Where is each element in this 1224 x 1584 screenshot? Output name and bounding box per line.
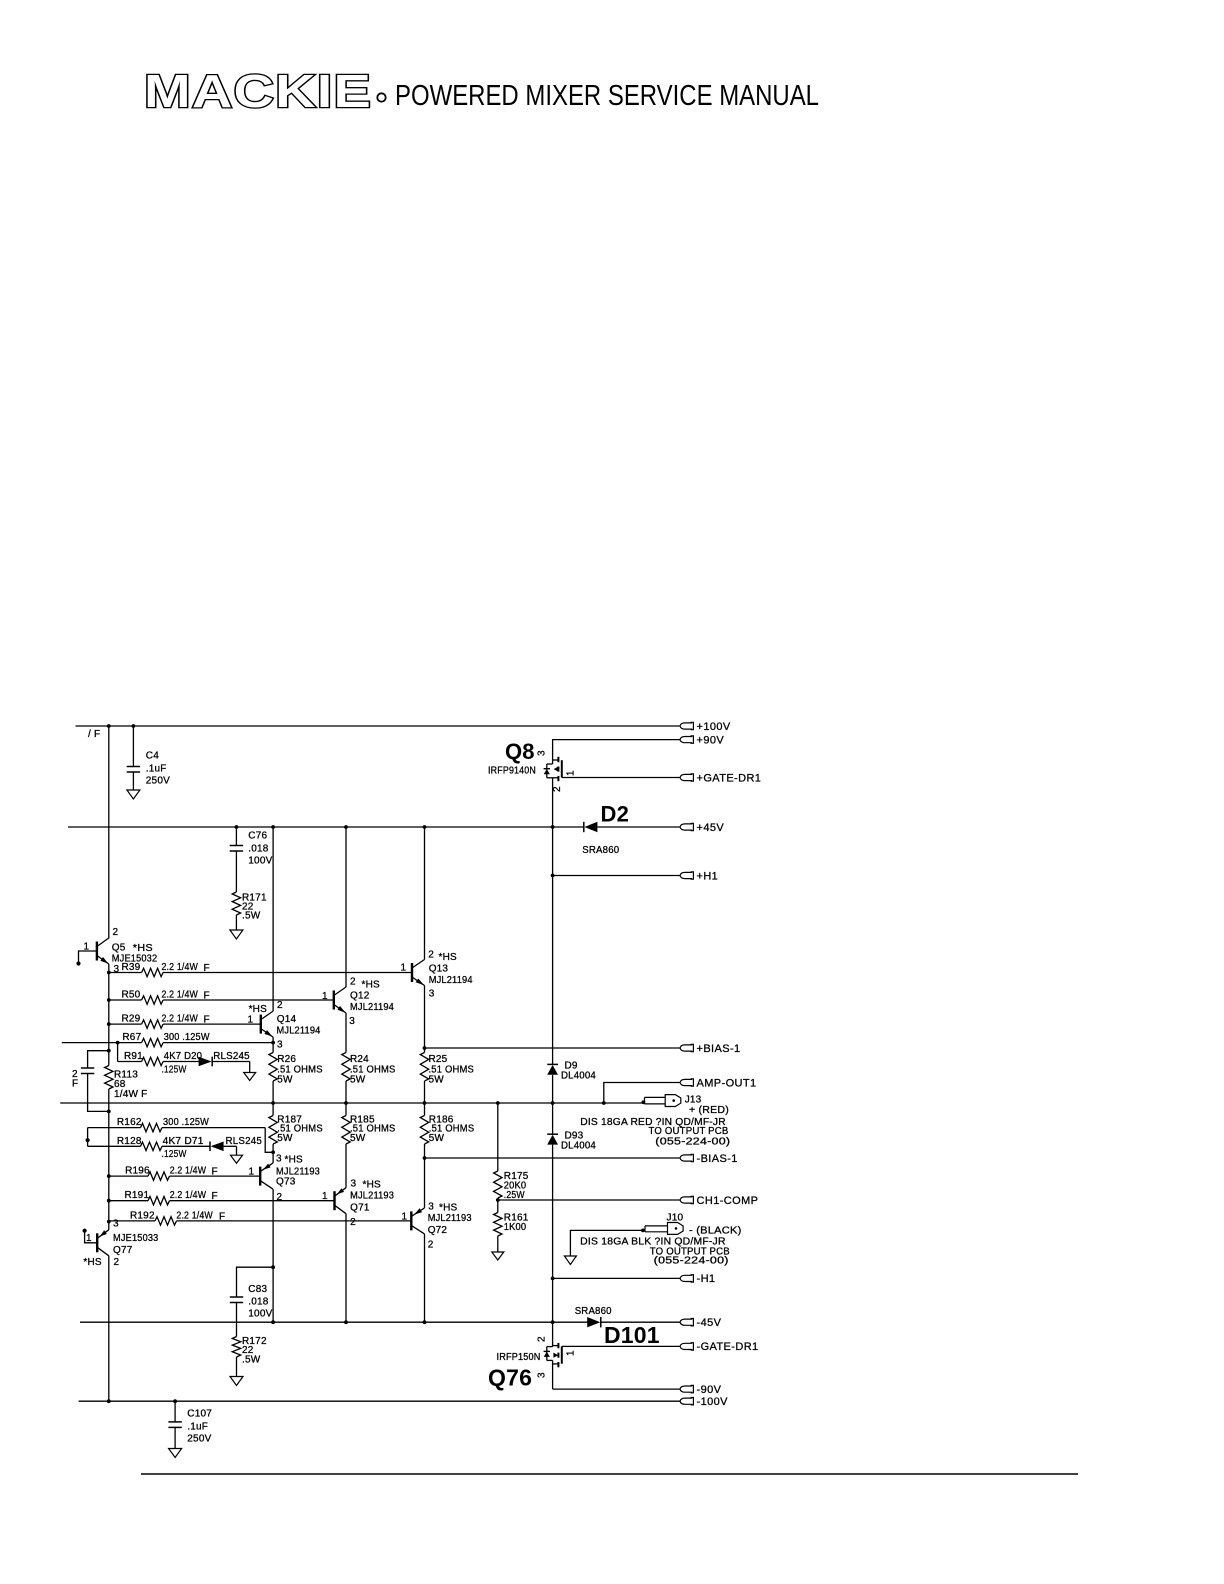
- junction -45V output column: [551, 1320, 555, 1324]
- svg-text:+100V: +100V: [697, 721, 731, 733]
- svg-text:D2: D2: [601, 802, 630, 827]
- junction +100V to C4: [132, 724, 136, 728]
- junction -45V Q73 column: [271, 1320, 275, 1324]
- svg-text:Q73: Q73: [276, 1177, 296, 1188]
- svg-text:2: 2: [277, 1000, 283, 1011]
- transistor Q77 MJE15033: [96, 1233, 98, 1252]
- svg-text:2.2 1/4W: 2.2 1/4W: [162, 990, 199, 1001]
- svg-text:3: 3: [429, 989, 435, 1000]
- resistor R175: [494, 1171, 502, 1198]
- junction R67 and R91 branch: [116, 1041, 120, 1045]
- svg-text:5W: 5W: [277, 1133, 293, 1144]
- svg-text:R162: R162: [117, 1117, 142, 1128]
- svg-text:RLS245: RLS245: [213, 1051, 250, 1062]
- diode D71: [209, 1142, 211, 1152]
- wire +GATE-DR1: [562, 777, 680, 779]
- resistor R29: [109, 1020, 261, 1028]
- transistor Q76 IRFP150N N-channel MOSFET: [544, 1343, 562, 1389]
- wire mid rail AMP-OUT1: [60, 1102, 644, 1104]
- wire +BIAS-1: [425, 1047, 681, 1049]
- svg-text:R191: R191: [125, 1190, 150, 1201]
- wire Q14 emitter to R26 node: [272, 1037, 274, 1043]
- svg-text:*HS: *HS: [133, 943, 153, 954]
- svg-text:RLS245: RLS245: [226, 1136, 263, 1147]
- svg-text:R67: R67: [122, 1032, 141, 1043]
- wire output column +45V to +H1: [552, 827, 554, 876]
- svg-text:300 .125W: 300 .125W: [164, 1032, 210, 1043]
- connector tag -GATE-DR1: [680, 1343, 692, 1349]
- svg-text:100V: 100V: [248, 1309, 272, 1320]
- svg-text:Q76: Q76: [488, 1365, 532, 1391]
- wire +H1: [553, 875, 680, 877]
- svg-text:2: 2: [114, 1257, 120, 1268]
- svg-text:- (BLACK): - (BLACK): [689, 1226, 742, 1237]
- svg-text:Q12: Q12: [350, 991, 370, 1002]
- svg-text:-100V: -100V: [697, 1396, 729, 1408]
- wire Q77 base stub: [85, 1231, 98, 1243]
- svg-text:2: 2: [428, 950, 434, 961]
- junction bus cap jog top: [107, 1049, 111, 1053]
- junction mid rail R25: [423, 1101, 427, 1105]
- svg-text:F: F: [219, 1211, 225, 1222]
- wire output column +H1 to D9: [552, 876, 554, 1065]
- junction output column -H1: [551, 1277, 555, 1281]
- svg-text:2: 2: [537, 1336, 548, 1342]
- wire -45V rail: [80, 1321, 590, 1323]
- junction mid rail R175: [496, 1101, 500, 1105]
- connector tag AMP-OUT1: [680, 1079, 692, 1085]
- svg-text:.018: .018: [248, 844, 269, 855]
- svg-text:2: 2: [277, 1192, 283, 1203]
- svg-text:Q14: Q14: [277, 1014, 297, 1025]
- wire Q73 collector to R187: [272, 1152, 274, 1163]
- resistor R50: [109, 996, 334, 1004]
- svg-text:100V: 100V: [248, 856, 272, 867]
- connector tag +GATE-DR1: [680, 774, 692, 780]
- junction -100V left bus: [107, 1399, 111, 1403]
- svg-text:2.2 1/4W: 2.2 1/4W: [162, 962, 199, 973]
- svg-text:2: 2: [113, 927, 119, 938]
- junction bus R39: [107, 971, 111, 975]
- ground below C107: [169, 1449, 182, 1458]
- svg-text:3: 3: [113, 1219, 119, 1230]
- resistor R26: [272, 1043, 274, 1053]
- resistor R185: [345, 1103, 347, 1116]
- svg-text:2.2 1/4W: 2.2 1/4W: [176, 1210, 213, 1221]
- svg-text:1: 1: [84, 942, 90, 953]
- svg-text:4K7 D20: 4K7 D20: [164, 1051, 203, 1062]
- svg-text:5W: 5W: [277, 1075, 293, 1086]
- transistor Q12 MJL21194: [333, 991, 335, 1010]
- connector tag -H1: [680, 1275, 692, 1281]
- svg-text:R192: R192: [130, 1210, 155, 1221]
- svg-text:5W: 5W: [429, 1075, 445, 1086]
- resistor R67: [62, 1038, 273, 1046]
- node stub on R128 link: [86, 1138, 90, 1142]
- svg-text:+H1: +H1: [697, 870, 719, 882]
- junction bus cap jog bottom: [107, 1110, 111, 1114]
- junction Q14 emitter R67 R26: [271, 1041, 275, 1045]
- wire Q5 base stub: [79, 951, 97, 964]
- svg-text:2: 2: [428, 1240, 434, 1251]
- wire Q13 emitter to +BIAS-1: [424, 986, 426, 1053]
- resistor R186: [424, 1103, 426, 1116]
- svg-text:-90V: -90V: [697, 1384, 722, 1396]
- svg-text:3: 3: [114, 964, 120, 975]
- transistor Q72 MJL21193: [410, 1211, 412, 1230]
- connector tag CH1-COMP: [680, 1197, 692, 1203]
- svg-text:(055-224-00): (055-224-00): [654, 1256, 729, 1267]
- svg-text:R25: R25: [429, 1054, 448, 1065]
- svg-text:J10: J10: [667, 1212, 684, 1223]
- node Q77 base stub: [83, 1229, 87, 1233]
- svg-text:+90V: +90V: [697, 734, 725, 746]
- svg-text:2: 2: [350, 1217, 356, 1228]
- wire R162-R128 left link: [87, 1128, 89, 1147]
- svg-text:MJL21193: MJL21193: [428, 1213, 472, 1224]
- svg-text:/ F: / F: [88, 729, 100, 740]
- resistor R161: [497, 1200, 499, 1213]
- svg-text:+45V: +45V: [697, 822, 725, 834]
- junction +45V rail and Q14 collector column: [271, 825, 275, 829]
- svg-text:Q5: Q5: [112, 943, 126, 954]
- wire -H1: [553, 1277, 680, 1279]
- svg-text:2.2 1/4W: 2.2 1/4W: [170, 1190, 207, 1201]
- svg-text:R50: R50: [122, 990, 141, 1001]
- svg-text:F: F: [204, 1015, 210, 1026]
- svg-text:*HS: *HS: [285, 1155, 304, 1166]
- resistor R128 with diode D71 RLS245: [88, 1142, 210, 1150]
- svg-text:5W: 5W: [350, 1133, 366, 1144]
- junction -100V C107: [173, 1399, 177, 1403]
- resistor R162: [88, 1123, 274, 1152]
- svg-text:J13: J13: [685, 1095, 702, 1106]
- wire Q5 emitter to bus: [108, 964, 110, 973]
- transistor Q8 IRFP9140N P-channel MOSFET: [544, 757, 562, 781]
- capacitor C76: [235, 827, 237, 846]
- junction mid rail AMP-OUT1 branch: [602, 1101, 606, 1105]
- svg-text:.5W: .5W: [242, 911, 261, 922]
- transistor Q14 MJL21194: [260, 1015, 262, 1034]
- svg-text:250V: 250V: [146, 776, 170, 787]
- svg-text:C76: C76: [248, 831, 267, 842]
- svg-text:IRFP9140N: IRFP9140N: [488, 766, 536, 777]
- svg-text:.125W: .125W: [162, 1065, 187, 1076]
- svg-text:2: 2: [552, 786, 563, 792]
- svg-text:F: F: [204, 963, 210, 974]
- wire output column -H1 to -45V: [552, 1278, 554, 1322]
- svg-text:*HS: *HS: [363, 1180, 382, 1191]
- wire -BIAS-1: [425, 1157, 681, 1159]
- wire Q77 collector to -100V: [108, 1256, 110, 1401]
- transistor Q71 MJL21193: [333, 1191, 335, 1210]
- wire Q72 emitter column down: [424, 1234, 426, 1322]
- wire Q12 collector column: [345, 827, 347, 987]
- svg-text:F: F: [72, 1079, 78, 1090]
- svg-text:F: F: [212, 1191, 218, 1202]
- resistor R113: [105, 1066, 113, 1090]
- svg-text:*HS: *HS: [249, 1004, 268, 1015]
- svg-text:1: 1: [566, 1350, 577, 1356]
- svg-text:1: 1: [86, 1233, 92, 1244]
- resistor R171: [232, 892, 240, 915]
- svg-text:SRA860: SRA860: [575, 1306, 612, 1317]
- junction bus R50: [107, 998, 111, 1002]
- wire -90V: [553, 1388, 680, 1390]
- resistor R196: [109, 1172, 260, 1180]
- svg-text:300 .125W: 300 .125W: [163, 1117, 209, 1128]
- svg-text:3: 3: [277, 1040, 283, 1051]
- junction +45V rail and C76: [235, 825, 239, 829]
- svg-text:R91: R91: [124, 1051, 143, 1062]
- transistor Q5 MJE15032: [96, 942, 98, 961]
- svg-text:1: 1: [248, 1015, 254, 1026]
- svg-text:.125W: .125W: [162, 1149, 187, 1160]
- svg-text:.1uF: .1uF: [146, 764, 167, 775]
- ground below C4: [127, 790, 140, 799]
- svg-text:POWERED MIXER SERVICE MANUAL: POWERED MIXER SERVICE MANUAL: [395, 80, 819, 112]
- svg-text:R29: R29: [122, 1014, 141, 1025]
- svg-text:C83: C83: [248, 1284, 267, 1295]
- diode D20: [211, 1057, 213, 1067]
- junction +45V rail and Q12 collector column: [344, 825, 348, 829]
- svg-text:(055-224-00): (055-224-00): [655, 1136, 730, 1147]
- connector tag -100V: [680, 1398, 692, 1404]
- ground below R161: [492, 1252, 504, 1260]
- svg-text:+GATE-DR1: +GATE-DR1: [697, 772, 762, 784]
- junction Q73 column C83: [271, 1265, 275, 1269]
- svg-text:4K7 D71: 4K7 D71: [163, 1136, 204, 1147]
- wire -45V to Q76 drain: [552, 1322, 554, 1345]
- connector tag -45V: [680, 1319, 692, 1325]
- svg-text:R128: R128: [117, 1136, 142, 1147]
- junction output column at +H1: [551, 874, 555, 878]
- svg-text:3: 3: [428, 1202, 434, 1213]
- svg-text:.1uF: .1uF: [187, 1421, 208, 1432]
- svg-text:2.2 1/4W: 2.2 1/4W: [162, 1014, 199, 1025]
- diode D101 SRA860: [600, 1317, 602, 1327]
- node Q5 base stub: [76, 961, 80, 965]
- connector tag +45V: [680, 824, 692, 830]
- resistor R172: [232, 1337, 240, 1358]
- capacitor C4: [132, 726, 134, 767]
- wire +45V rail: [68, 826, 584, 828]
- ground below R172: [230, 1377, 243, 1386]
- connector tag +100V: [680, 723, 692, 729]
- wire AMP-OUT1 branch: [604, 1083, 680, 1104]
- wire left bus upper segment: [108, 726, 110, 939]
- svg-text:1: 1: [401, 963, 407, 974]
- svg-text:-GATE-DR1: -GATE-DR1: [697, 1341, 759, 1353]
- svg-text:Q8: Q8: [505, 739, 535, 764]
- svg-text:1: 1: [402, 1211, 408, 1222]
- junction R187 R162 Q73 collector: [271, 1150, 275, 1154]
- svg-text:-BIAS-1: -BIAS-1: [697, 1153, 738, 1165]
- diode D93 DL4004: [552, 1103, 554, 1134]
- junction mid rail J13: [642, 1100, 646, 1104]
- svg-text:5W: 5W: [350, 1075, 366, 1086]
- wire -100V rail: [79, 1400, 680, 1402]
- junction bus R192 Q77 emitter: [107, 1220, 111, 1224]
- svg-text:5W: 5W: [429, 1133, 445, 1144]
- junction +45V rail and Q8 drain column: [551, 825, 555, 829]
- wire Q14 collector column: [272, 827, 274, 1011]
- svg-text:SRA860: SRA860: [582, 845, 619, 856]
- junction -45V Q72 column: [423, 1320, 427, 1324]
- svg-text:3: 3: [276, 1154, 282, 1165]
- svg-text:.018: .018: [248, 1296, 269, 1307]
- svg-text:R26: R26: [277, 1054, 296, 1065]
- svg-text:.5W: .5W: [242, 1354, 261, 1365]
- footer rule: [141, 1473, 1078, 1475]
- wire +100V rail: [76, 725, 681, 727]
- svg-text:R39: R39: [122, 962, 141, 973]
- svg-text:DL4004: DL4004: [561, 1141, 596, 1152]
- junction mid rail R24: [344, 1101, 348, 1105]
- logo registered mark: [377, 93, 385, 101]
- svg-text:MJL21193: MJL21193: [350, 1191, 394, 1202]
- junction -45V Q71 column: [344, 1320, 348, 1324]
- svg-text:3: 3: [537, 750, 548, 756]
- wire Q71 emitter column down: [345, 1214, 347, 1323]
- svg-text:*HS: *HS: [439, 952, 458, 963]
- wire -GATE-DR1: [562, 1345, 680, 1347]
- svg-text:MACKIE: MACKIE: [144, 65, 372, 117]
- junction mid rail R26: [271, 1101, 275, 1105]
- junction +45V rail and Q13 collector column: [423, 825, 427, 829]
- svg-text:1: 1: [322, 1191, 328, 1202]
- svg-text:DL4004: DL4004: [561, 1071, 596, 1082]
- svg-text:D101: D101: [604, 1322, 660, 1348]
- capacitor bypass 2F on bus: [81, 1051, 109, 1112]
- svg-text:*HS: *HS: [439, 1203, 458, 1214]
- junction output column at mid rail: [551, 1101, 555, 1105]
- junction +BIAS-1 at R25 column: [423, 1046, 427, 1050]
- resistor R91 with diode D20 RLS245: [118, 1043, 199, 1066]
- connector tag -BIAS-1: [680, 1155, 692, 1161]
- svg-text:Q13: Q13: [429, 964, 449, 975]
- wire +90V: [553, 740, 680, 760]
- connector tag -90V: [680, 1386, 692, 1392]
- connector J13 faston: [645, 1095, 681, 1107]
- capacitor C83: [230, 1267, 273, 1336]
- svg-text:IRFP150N: IRFP150N: [497, 1352, 541, 1363]
- ground below D71: [231, 1155, 243, 1163]
- svg-text:1K00: 1K00: [504, 1222, 527, 1233]
- svg-text:F: F: [212, 1167, 218, 1178]
- svg-text:Q72: Q72: [428, 1225, 448, 1236]
- ground below R171: [230, 930, 243, 939]
- wire Q13 collector column: [424, 827, 426, 960]
- wire Q8 drain to +45V rail: [552, 778, 554, 827]
- svg-text:C4: C4: [146, 751, 159, 762]
- junction bus R191: [107, 1199, 111, 1203]
- svg-text:MJL21194: MJL21194: [429, 975, 473, 986]
- svg-text:*HS: *HS: [83, 1257, 102, 1268]
- resistor R25: [424, 1081, 426, 1103]
- svg-text:1: 1: [249, 1167, 255, 1178]
- ground below J10 wire: [564, 1256, 576, 1265]
- svg-text:250V: 250V: [187, 1434, 211, 1445]
- transistor Q13 MJL21194: [411, 963, 413, 982]
- svg-text:Q77: Q77: [113, 1245, 133, 1256]
- svg-text:R196: R196: [125, 1166, 150, 1177]
- wire CH1-COMP: [498, 1199, 680, 1201]
- svg-text:R24: R24: [350, 1054, 369, 1065]
- svg-text:3: 3: [349, 1016, 355, 1027]
- resistor R24: [342, 1053, 350, 1082]
- svg-text:3: 3: [351, 1179, 357, 1190]
- junction J10 tail: [641, 1229, 645, 1233]
- transistor Q73 MJL21193: [259, 1167, 261, 1186]
- ground below D20: [244, 1073, 256, 1081]
- resistor R39: [109, 968, 412, 976]
- svg-text:MJL21194: MJL21194: [277, 1026, 321, 1037]
- junction CH1-COMP R175 R161: [496, 1198, 500, 1202]
- wire left bus main segment: [108, 973, 110, 1066]
- svg-text:MJL21194: MJL21194: [350, 1002, 394, 1013]
- junction -BIAS-1 at R186 column: [423, 1156, 427, 1160]
- connector J10 faston: [645, 1223, 683, 1235]
- svg-text:F: F: [204, 991, 210, 1002]
- junction bus R29: [107, 1022, 111, 1026]
- wire Q12 emitter to R24: [345, 1013, 347, 1053]
- svg-text:+ (RED): + (RED): [689, 1105, 729, 1116]
- svg-text:Q71: Q71: [350, 1203, 370, 1214]
- svg-text:C107: C107: [187, 1409, 212, 1420]
- wire Q77 emitter to bus: [108, 1222, 110, 1230]
- junction +100V to left bus: [107, 724, 111, 728]
- wire J10 to ground: [570, 1230, 643, 1256]
- diode D9 DL4004: [547, 1063, 558, 1065]
- svg-text:2.2 1/4W: 2.2 1/4W: [170, 1166, 207, 1177]
- svg-text:+BIAS-1: +BIAS-1: [697, 1043, 741, 1055]
- diode D2 SRA860: [583, 822, 585, 832]
- svg-text:MJE15033: MJE15033: [113, 1233, 159, 1244]
- svg-text:3: 3: [537, 1372, 548, 1378]
- resistor R192: [109, 1217, 412, 1225]
- resistor R191: [109, 1197, 335, 1205]
- connector tag +BIAS-1: [680, 1045, 692, 1051]
- wire Q73 emitter column down: [272, 1189, 274, 1322]
- resistor R187: [272, 1103, 274, 1116]
- svg-text:1: 1: [566, 770, 577, 776]
- svg-text:CH1-COMP: CH1-COMP: [697, 1195, 759, 1207]
- svg-text:-H1: -H1: [697, 1273, 716, 1285]
- svg-text:1/4W F: 1/4W F: [114, 1089, 148, 1100]
- svg-text:AMP-OUT1: AMP-OUT1: [697, 1077, 757, 1089]
- junction bus R196: [107, 1174, 111, 1178]
- connector tag +90V: [680, 737, 692, 743]
- svg-text:*HS: *HS: [362, 980, 381, 991]
- svg-text:2: 2: [350, 977, 356, 988]
- capacitor C107: [174, 1401, 176, 1422]
- svg-text:1: 1: [322, 991, 328, 1002]
- connector tag +H1: [680, 872, 692, 878]
- svg-text:-45V: -45V: [697, 1317, 722, 1329]
